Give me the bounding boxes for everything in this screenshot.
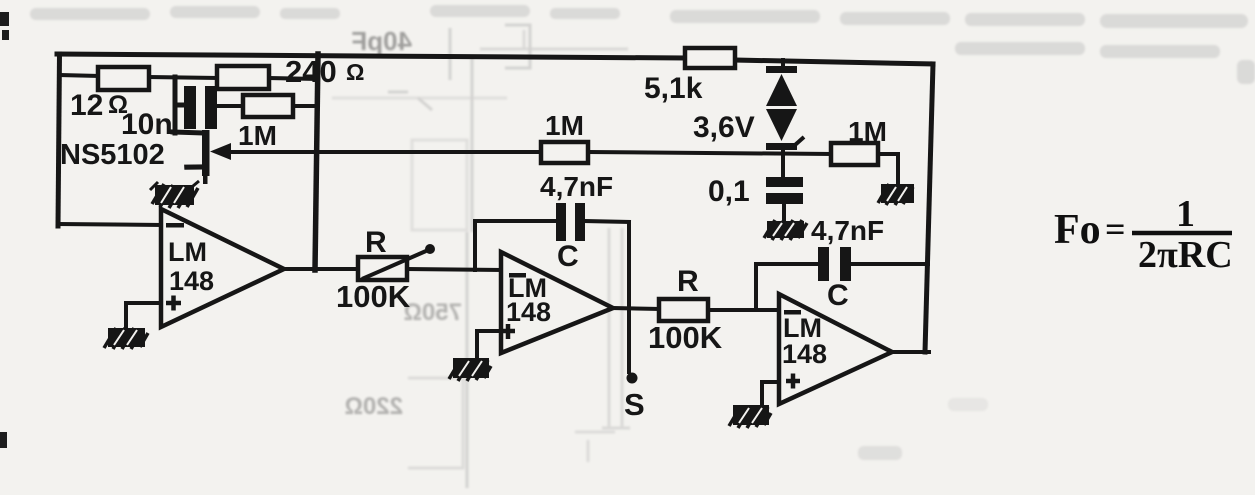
ground (right 1M resistor) — [878, 184, 914, 205]
wire: U2 feedback top to C 4,7nF — [475, 219, 556, 223]
op-amp U1 LM148 — [161, 209, 284, 327]
U3 plus sign — [786, 374, 800, 389]
wire: R 240 to node at x317 — [269, 78, 317, 79]
wire: op-amp U3 output to right rail — [892, 350, 929, 354]
svg-text:C: C — [557, 240, 579, 273]
ground (transistor lead / above U1) hatched — [150, 181, 199, 208]
wire: thick vertical node x317 (feedback to U1 output) — [315, 54, 318, 270]
svg-text:3,6V: 3,6V — [693, 111, 755, 144]
wire: long emitter line to transistor — [229, 150, 541, 154]
wire: C 4,7nF right to right rail — [850, 262, 928, 266]
wire: C 4,7nF to output vertical — [585, 221, 629, 222]
wire: op-amp U3 non-inverting input to ground — [762, 382, 779, 404]
wire: 0,1 capacitor to ground — [782, 204, 786, 222]
resistor 1M (top left) — [243, 95, 293, 117]
svg-text:R: R — [677, 265, 699, 298]
U1 minus sign — [166, 223, 184, 228]
wire: U2 output to R 100K — [613, 308, 659, 309]
U1 plus sign — [166, 296, 181, 311]
wire: left vertical rail — [58, 54, 60, 226]
svg-text:=: = — [1105, 209, 1126, 249]
wire: zener node down to 0,1 capacitor — [781, 150, 785, 178]
svg-text:40pF: 40pF — [351, 26, 412, 56]
svg-text:148: 148 — [169, 266, 214, 296]
op-amp U2 LM148 — [501, 252, 613, 353]
ground (U3 non-inverting input) — [729, 405, 771, 428]
potentiometer R 100K — [358, 244, 435, 280]
U2 plus sign — [501, 324, 515, 339]
wire: vertical through U2 output to S terminal — [627, 222, 631, 372]
svg-text:220Ω: 220Ω — [345, 393, 403, 420]
wire: stub down to capacitor C 10n — [175, 77, 184, 133]
ground (U1 non-inverting input) — [104, 328, 148, 349]
svg-text:5,1k: 5,1k — [644, 72, 703, 105]
wire: op-amp U2 non-inverting input to ground — [477, 331, 501, 357]
wire: C 10n right plate to R 1M — [217, 104, 243, 108]
capacitor C 10n plates — [184, 86, 217, 129]
svg-text:12: 12 — [70, 89, 103, 122]
formula Fo = 1/(2 pi RC) — [1054, 193, 1233, 276]
stray ink marks (scan edge, decorative) — [0, 12, 267, 448]
svg-text:148: 148 — [506, 297, 551, 327]
wire: op-amp U1 output to pot R — [284, 267, 358, 271]
svg-text:1M: 1M — [545, 110, 584, 141]
svg-text:148: 148 — [782, 339, 827, 369]
wire: emitter line mid segment — [588, 152, 831, 154]
svg-text:1M: 1M — [238, 120, 277, 151]
capacitor C 4,7nF (U2 feedback) plates — [556, 203, 585, 241]
svg-text:Ω: Ω — [346, 59, 364, 85]
wire: U3 feedback top to C 4,7nF — [756, 262, 818, 266]
svg-text:LM: LM — [168, 237, 207, 267]
wire: stub to transistor base — [173, 132, 205, 133]
wire: 12 ohm branch left — [60, 75, 98, 76]
svg-text:4,7nF: 4,7nF — [540, 171, 613, 202]
svg-text:10n: 10n — [121, 108, 173, 141]
op-amp U3 LM148 — [779, 294, 892, 404]
resistor 5,1k (in top rail) — [685, 48, 735, 68]
transistor NS5102 (base bar, emitter arrow, lead) — [183, 130, 231, 184]
svg-text:1M: 1M — [848, 116, 887, 147]
wire: top supply rail — [57, 54, 685, 58]
svg-text:100K: 100K — [648, 320, 723, 355]
svg-text:240: 240 — [285, 54, 337, 89]
wire: op-amp U1 non-inverting input to ground — [126, 303, 161, 328]
wire: emitter line right segment into R 1M right — [878, 154, 898, 184]
svg-text:Fo: Fo — [1054, 207, 1101, 253]
resistor 240 ohm — [217, 66, 269, 89]
svg-text:1: 1 — [1176, 193, 1195, 235]
main ink — [57, 48, 933, 404]
wire: between R 12 and R 240 — [149, 77, 217, 78]
wire: top rail right of 5,1k — [735, 60, 933, 64]
svg-text:750Ω: 750Ω — [404, 299, 462, 326]
svg-text:NS5102: NS5102 — [60, 139, 165, 171]
terminal S dot — [627, 373, 638, 384]
wire: U3 feedback vertical — [754, 264, 758, 310]
svg-text:0,1: 0,1 — [708, 175, 750, 208]
U3 minus sign — [784, 310, 801, 315]
zener diode pair D1/D2 3,6V — [766, 66, 797, 150]
ground (U2 non-inverting input) — [449, 358, 491, 381]
formula fraction bar — [1132, 231, 1232, 236]
capacitor 0,1 plates — [766, 177, 803, 204]
svg-text:4,7nF: 4,7nF — [811, 215, 884, 246]
svg-text:100K: 100K — [336, 279, 411, 314]
wire: right vertical rail — [925, 64, 933, 352]
resistor 1M (right) — [831, 143, 878, 165]
svg-text:S: S — [624, 387, 645, 422]
resistor 1M (middle, on emitter line) — [541, 142, 588, 163]
zener bar wing — [795, 137, 804, 145]
svg-text:R: R — [365, 226, 387, 259]
U2 minus sign — [509, 273, 526, 278]
wire: op-amp U1 inverting input feed — [58, 224, 161, 225]
ground (below 0,1 capacitor) — [764, 220, 807, 240]
resistor 12 ohm — [98, 67, 149, 90]
wire: U2 feedback vertical — [473, 222, 477, 270]
capacitor C 4,7nF (U3 feedback) plates — [818, 247, 851, 281]
svg-text:2πRC: 2πRC — [1138, 234, 1233, 276]
wire: zener stub from top rail — [781, 60, 785, 67]
resistor R 100K (second) — [659, 299, 708, 321]
wire: R 100K to op-amp U3 inverting input — [708, 308, 779, 312]
wire: pot R to op-amp U2 inverting input — [407, 269, 501, 270]
wire: R 1M to vertical node x317 — [293, 104, 316, 108]
svg-text:C: C — [827, 279, 849, 312]
